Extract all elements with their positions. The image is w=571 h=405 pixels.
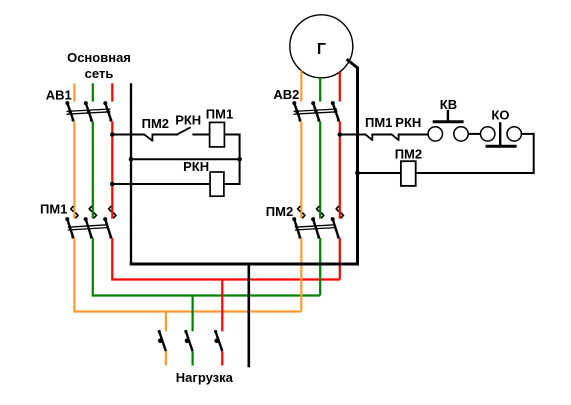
contactor ПМ1 pole 3	[103, 206, 116, 239]
circuit breaker АВ1 pole 3 blade	[103, 101, 112, 122]
wire phase A lower right (orange, bend left)	[300, 238, 302, 312]
coil ПМ2	[401, 161, 416, 186]
svg-text:АВ2: АВ2	[273, 87, 299, 102]
wire phase A upper left (orange)	[73, 83, 75, 101]
svg-text:ПМ2: ПМ2	[395, 146, 422, 161]
svg-text:ПМ1: ПМ1	[365, 115, 392, 130]
wire rung1 segment c	[192, 134, 209, 136]
wire ПМ2 coil rung right part	[416, 172, 534, 174]
wire КВ-КО link	[468, 133, 480, 135]
circuit breaker АВ1 pole 1 blade	[65, 101, 74, 122]
label АВ2	[273, 87, 299, 102]
wire load drop A upper (orange)	[165, 311, 167, 332]
wire rung1 segment d	[224, 134, 239, 136]
label Основная (main network caption line 1)	[67, 50, 131, 65]
wire load drop C lower (red)	[221, 351, 223, 365]
label Нагрузка	[176, 370, 234, 385]
wire phase C mid right (red)	[339, 121, 341, 218]
pushbutton КВ contact circle 2	[454, 127, 468, 141]
svg-text:сеть: сеть	[85, 66, 114, 81]
switch load pole A	[158, 330, 166, 351]
contact РКН (closed blade)	[391, 134, 399, 141]
contactor ПМ2 pole 2	[311, 206, 324, 239]
contactor ПМ1 pole 2	[84, 206, 97, 239]
wire rung 2 (neutral tie)	[131, 158, 240, 160]
svg-text:КО: КО	[491, 107, 509, 122]
contactor ПМ2 pole 1	[292, 206, 305, 239]
node junction neutral-rung2	[129, 157, 134, 162]
wire phase B upper left (green)	[92, 83, 94, 101]
pushbutton КО contact circle 1	[481, 127, 495, 141]
wire neutral left (black vertical)	[130, 83, 132, 265]
wire load drop B upper (green)	[192, 295, 194, 332]
wire right rung segment c	[399, 134, 428, 136]
wire phase A mid left (orange)	[73, 121, 75, 218]
contact ПМ2 (closed blade)	[143, 134, 152, 142]
contactor ПМ1 linkage bar	[68, 225, 107, 230]
circuit breaker АВ2 pole 1 blade	[292, 101, 301, 122]
label РКН (contact)	[175, 112, 201, 127]
label ПМ2 (contactor)	[266, 204, 293, 219]
label АВ1	[46, 87, 72, 102]
contactor ПМ2 linkage bar	[295, 225, 335, 230]
wire phase C upper right (red)	[339, 72, 341, 102]
wire phase C upper left (red)	[111, 83, 113, 101]
svg-text:АВ1: АВ1	[46, 87, 72, 102]
wire phase A mid right (orange)	[300, 121, 302, 218]
svg-text:ПМ1: ПМ1	[206, 107, 233, 122]
svg-text:Нагрузка: Нагрузка	[176, 370, 234, 385]
label сеть (main network caption line 2)	[85, 66, 114, 81]
svg-text:РКН: РКН	[175, 112, 201, 127]
wire right rung segment a	[340, 134, 365, 136]
coil РКН	[210, 172, 224, 196]
wire load drop C upper (red)	[221, 279, 223, 332]
node junction neutral-ПМ2-coil	[355, 171, 360, 176]
contactor ПМ2 pole 3	[331, 206, 344, 239]
svg-text:РКН: РКН	[183, 159, 209, 174]
wire phase C mid left (red)	[111, 121, 113, 218]
node junction red-rung3	[110, 182, 115, 187]
contact РКН (open blade)	[178, 127, 191, 134]
wire phase B lower right (green, bend left)	[319, 238, 321, 296]
wire right rung to corner	[521, 133, 533, 135]
svg-text:Основная: Основная	[67, 50, 131, 65]
contactor ПМ1 pole 1	[65, 206, 78, 239]
label КО	[491, 107, 509, 122]
svg-text:КВ: КВ	[440, 97, 457, 112]
wire rung3 segment a	[112, 183, 210, 185]
pushbutton КО contact circle 2	[507, 127, 521, 141]
node junction red-rung1	[110, 132, 115, 137]
wire phase B upper right (green)	[319, 78, 321, 102]
generator Г (circle)	[290, 15, 353, 78]
svg-text:РКН: РКН	[395, 115, 421, 130]
wire rung1 segment b	[152, 134, 178, 136]
wire phase B mid right (green)	[319, 121, 321, 218]
wire phase A lower left (orange, bend right)	[74, 238, 301, 312]
label КВ	[440, 97, 457, 112]
label ПМ1 (right contact)	[365, 115, 392, 130]
label ПМ1 (coil)	[206, 107, 233, 122]
pushbutton КО stem	[499, 122, 501, 146]
label РКН (right contact)	[395, 115, 421, 130]
pushbutton КВ bridge bar	[433, 120, 464, 123]
wire neutral bus (thick horizontal)	[130, 263, 359, 266]
pushbutton КВ stem	[447, 110, 449, 122]
label ПМ2 (contact)	[142, 116, 169, 131]
svg-text:Г: Г	[317, 41, 326, 58]
label ПМ2 (coil)	[395, 146, 422, 161]
node junction red-right-rung	[338, 132, 343, 137]
svg-text:ПМ2: ПМ2	[266, 204, 293, 219]
circuit breaker АВ2 pole 3 blade	[331, 101, 340, 122]
wire rung3 segment b	[224, 183, 240, 185]
switch load pole B	[184, 330, 192, 351]
label ПМ1 (contactor)	[40, 201, 67, 216]
wire ПМ2 coil rung left part	[358, 172, 401, 174]
coil ПМ1	[210, 122, 225, 146]
node junction loop-rung2	[237, 157, 242, 162]
wire phase C lower right (red, bend left)	[339, 238, 341, 280]
circuit breaker АВ1 linkage bar	[67, 109, 111, 114]
switch load pole C	[214, 330, 222, 351]
wire phase A upper right (orange)	[300, 71, 302, 102]
wire control loop right vertical	[239, 134, 241, 186]
wire generator neutral (black, diagonal then vertical)	[347, 59, 358, 265]
wire right rung segment b	[372, 134, 391, 136]
label РКН (coil)	[183, 159, 209, 174]
wire load drop A lower (orange)	[165, 351, 167, 365]
label Г (generator)	[317, 41, 326, 58]
wire rung1 segment a	[112, 134, 144, 136]
wire phase B mid left (green)	[92, 121, 94, 218]
wire phase B lower left (green, bend right)	[93, 238, 320, 296]
wire load drop B lower (green)	[192, 351, 194, 365]
wire load neutral (black vertical drop)	[248, 263, 251, 368]
svg-text:ПМ1: ПМ1	[40, 201, 67, 216]
contact ПМ1 (closed blade)	[365, 134, 373, 141]
circuit breaker АВ2 linkage bar	[294, 109, 338, 114]
pushbutton КВ contact circle 1	[428, 127, 442, 141]
circuit breaker АВ1 pole 2 blade	[84, 101, 93, 122]
wire phase C lower left (red, bend right)	[112, 238, 339, 280]
svg-text:ПМ2: ПМ2	[142, 116, 169, 131]
wire right loop vertical	[533, 133, 535, 174]
circuit breaker АВ2 pole 2 blade	[311, 101, 320, 122]
pushbutton КО bridge bar	[486, 145, 517, 148]
